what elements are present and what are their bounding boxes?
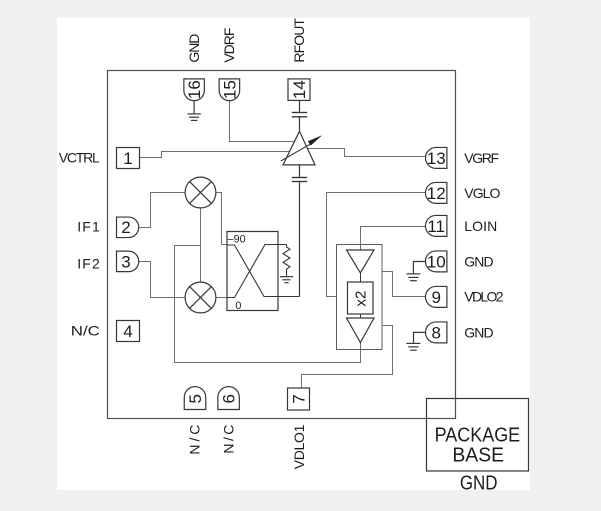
mixer M2 [185, 282, 216, 313]
svg-text:VCTRL: VCTRL [59, 149, 100, 165]
package base box [427, 399, 529, 472]
wire LO distribution to mixers [175, 246, 361, 363]
pin 14 RFOUT [288, 79, 310, 101]
svg-text:VDRF: VDRF [221, 28, 237, 63]
pin 9 VDLO2 [425, 286, 446, 307]
svg-text:GND: GND [460, 472, 498, 494]
pin 8 GND [425, 322, 446, 343]
svg-text:11: 11 [427, 217, 445, 236]
svg-text:IF1: IF1 [77, 219, 100, 235]
svg-text:RFOUT: RFOUT [291, 18, 307, 63]
attenuator U1 (variable) [283, 131, 315, 165]
svg-text:16: 16 [185, 80, 204, 99]
svg-text:VDLO1: VDLO1 [291, 424, 307, 469]
pin 6 N/C [218, 387, 240, 410]
hybrid cross path bottom-left to top-right [227, 245, 287, 298]
svg-text:GND: GND [464, 324, 493, 340]
pin 12 VGLO [425, 182, 446, 203]
wire pin1 VCTRL to attenuator [140, 152, 290, 158]
svg-text:8: 8 [431, 323, 440, 342]
svg-text:GND: GND [186, 34, 202, 63]
ground (pin16) [187, 101, 200, 121]
wire attenuator to pin13 VGRF [308, 149, 425, 157]
wire pin11 LOIN to amp A1 [361, 227, 426, 251]
attenuator slash [281, 144, 310, 161]
wire pin9 VDLO2 to x2 block [382, 272, 425, 297]
pin 1 VCTRL [117, 148, 140, 169]
svg-text:14: 14 [290, 80, 309, 99]
svg-text:3: 3 [121, 252, 130, 271]
svg-text:GND: GND [464, 253, 493, 269]
capacitor C2 (attenuator to hybrid) [292, 165, 307, 297]
svg-text:0: 0 [235, 300, 241, 312]
mixer M1 [185, 177, 216, 208]
svg-text:9: 9 [431, 288, 440, 307]
pin 13 VGRF [425, 147, 446, 168]
wire pin15 VDRF to attenuator [230, 101, 295, 142]
90 degree hybrid coupler [227, 232, 278, 311]
wire pin12 VGLO to x2 block [327, 193, 426, 297]
svg-text:N/C: N/C [221, 425, 237, 454]
pin 16 GND [184, 79, 205, 101]
wire pin7 VDLO1 to x2 block [302, 326, 393, 389]
svg-text:1: 1 [123, 149, 132, 168]
pin 2 IF1 [117, 217, 139, 238]
svg-text:BASE: BASE [452, 444, 504, 466]
pin 5 N/C [184, 387, 206, 410]
capacitor C1 (pin14 to attenuator) [292, 101, 307, 132]
svg-text:VDLO2: VDLO2 [464, 289, 503, 305]
svg-text:4: 4 [123, 322, 132, 341]
svg-text:PACKAGE: PACKAGE [435, 425, 521, 447]
pin 11 LOIN [425, 215, 446, 236]
svg-text:LOIN: LOIN [464, 218, 497, 234]
chip outline [108, 71, 456, 419]
wire mixer M2 to hybrid 0 port [216, 297, 228, 299]
svg-text:IF2: IF2 [77, 255, 100, 271]
wire mixer M1 to hybrid -90 port [216, 193, 228, 245]
hybrid cross path top-left to bottom-right [227, 245, 300, 297]
wire pin2 IF1 to mixer M1 [139, 193, 185, 228]
svg-text:15: 15 [220, 80, 239, 99]
ground (pin8) [406, 332, 425, 350]
resistor R1 (hybrid termination) [283, 245, 290, 277]
svg-text:7: 7 [290, 394, 309, 403]
wire x2 to A2 [360, 314, 362, 318]
svg-text:N/C: N/C [187, 425, 203, 455]
svg-text:VGRF: VGRF [464, 150, 499, 166]
pin 10 GND [425, 251, 446, 272]
svg-text:13: 13 [427, 149, 446, 168]
amplifier A1 [347, 250, 375, 273]
svg-text:2: 2 [121, 218, 130, 237]
svg-text:–90: –90 [228, 234, 246, 246]
pin 7 VDLO1 [288, 388, 310, 410]
ground (resistor R1) [280, 277, 293, 283]
x2 multiplier chain block [337, 245, 383, 350]
svg-text:6: 6 [220, 394, 239, 403]
svg-text:x2: x2 [352, 291, 369, 307]
svg-text:VGLO: VGLO [464, 185, 500, 201]
wire A1 to x2 [360, 273, 362, 282]
svg-text:N/C: N/C [71, 322, 100, 338]
pin 4 N/C [117, 321, 140, 342]
amplifier A2 [347, 318, 375, 343]
wire mixer M1 to mixer M2 LO port [200, 208, 202, 282]
svg-text:10: 10 [427, 252, 446, 271]
attenuator arrow head [308, 135, 322, 145]
pin 3 IF2 [117, 251, 139, 272]
ground (pin10) [407, 262, 425, 281]
frequency doubler x2 [348, 282, 374, 314]
svg-text:12: 12 [427, 184, 446, 203]
svg-text:5: 5 [186, 394, 205, 403]
pin 15 VDRF [219, 79, 240, 101]
wire pin3 IF2 to mixer M2 [139, 262, 185, 298]
